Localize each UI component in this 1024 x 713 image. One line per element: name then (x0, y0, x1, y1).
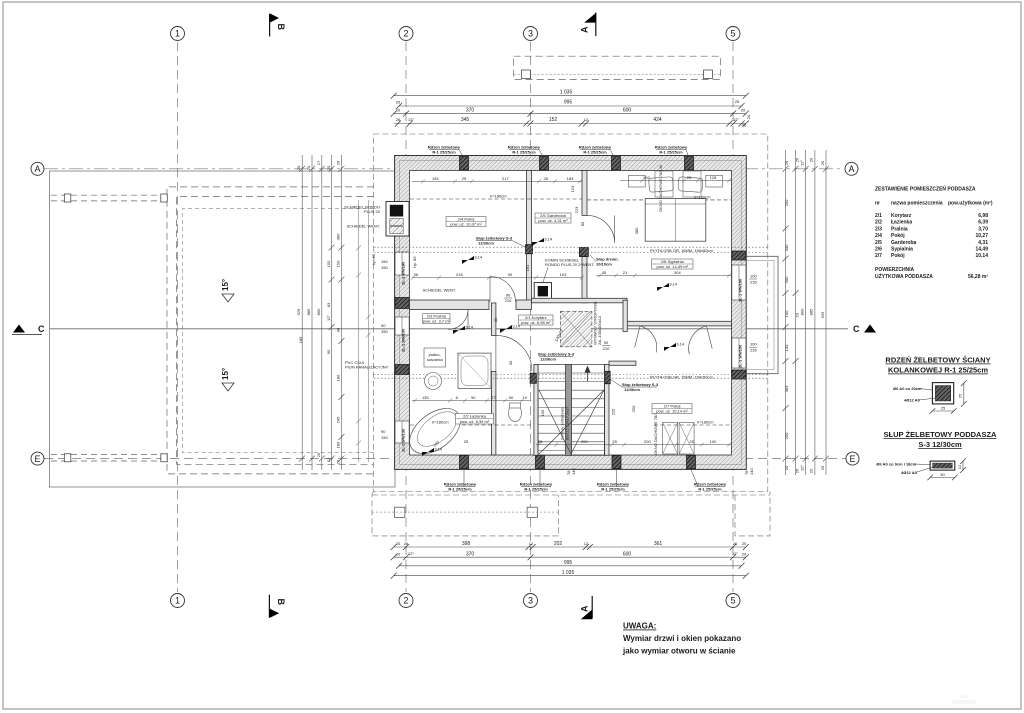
svg-text:25: 25 (543, 176, 548, 181)
svg-text:2L-1 9/N/130: 2L-1 9/N/130 (401, 428, 406, 452)
toilet (509, 405, 522, 422)
svg-text:suszarka: suszarka (427, 357, 444, 362)
svg-text:pow. uż. 6,39 m²: pow. uż. 6,39 m² (460, 419, 490, 424)
stairs up arrow (585, 366, 591, 373)
svg-text:A: A (34, 164, 40, 174)
room label 2/3 (423, 314, 450, 324)
svg-text:380: 380 (335, 233, 340, 240)
svg-text:12/36cm: 12/36cm (624, 387, 640, 392)
svg-text:jako wymiar otworu w ścianie: jako wymiar otworu w ścianie (622, 647, 736, 656)
svg-text:PŁYTA OSB GR. 15MM. 150x50cm: PŁYTA OSB GR. 15MM. 150x50cm (650, 248, 714, 253)
svg-text:300: 300 (784, 276, 789, 283)
svg-text:2: 2 (403, 596, 408, 606)
svg-text:26: 26 (733, 541, 738, 546)
ridge post left (522, 70, 531, 79)
interior dim row mid (412, 277, 582, 279)
svg-text:3: 3 (528, 29, 533, 39)
grid axis 5 (732, 42, 734, 592)
svg-text:90: 90 (604, 340, 609, 345)
svg-text:Ø6 A0 co 9cm i 18cm: Ø6 A0 co 9cm i 18cm (876, 461, 916, 466)
svg-text:12: 12 (584, 117, 589, 122)
svg-text:223: 223 (574, 206, 579, 213)
roof fold dotted line upper (374, 246, 768, 248)
svg-text:20: 20 (396, 100, 401, 105)
svg-text:nazwa pomieszczenia: nazwa pomieszczenia (891, 201, 943, 207)
svg-text:8x20,1 18x17,5x27: 8x20,1 18x17,5x27 (565, 405, 570, 440)
svg-text:145: 145 (432, 176, 439, 181)
svg-text:2/5: 2/5 (875, 240, 882, 246)
svg-text:OKNO DACHOWE 78/140: OKNO DACHOWE 78/140 (658, 164, 663, 212)
svg-text:14,49: 14,49 (975, 247, 988, 253)
top dim ticks (391, 93, 397, 99)
grid axis 2 (405, 42, 407, 592)
roof fold dotted line lower (374, 374, 768, 376)
svg-text:216: 216 (456, 272, 463, 277)
svg-text:103: 103 (560, 272, 567, 277)
svg-text:PION KANALIZACYJNY: PION KANALIZACYJNY (345, 365, 389, 370)
wall bath right (491, 303, 496, 335)
interior dim row 2/7 (596, 274, 731, 276)
column left wall (395, 298, 409, 309)
svg-text:h=180cm: h=180cm (432, 420, 449, 425)
nightstand left (628, 175, 645, 187)
svg-text:20: 20 (784, 160, 789, 165)
svg-text:2/4: 2/4 (875, 233, 882, 239)
room label 2/1 (519, 315, 553, 325)
svg-text:12°: 12° (408, 117, 414, 122)
roof eaves outline left (49, 171, 395, 487)
column wood post (579, 248, 588, 257)
svg-text:1: 1 (175, 596, 180, 606)
svg-text:25: 25 (538, 439, 543, 444)
svg-text:R-1 25/25cm: R-1 25/25cm (448, 487, 472, 492)
svg-text:25: 25 (958, 393, 963, 398)
wall stairs top jog (609, 361, 636, 365)
svg-text:90: 90 (381, 429, 386, 434)
svg-text:12: 12 (957, 464, 962, 469)
svg-text:+3,14: +3,14 (674, 342, 685, 347)
bottom dim line 995 (399, 565, 742, 567)
svg-text:1 035: 1 035 (562, 570, 575, 576)
svg-text:Wymiar drzwi i okien pokazano: Wymiar drzwi i okien pokazano (623, 634, 741, 643)
room label 2/7 (652, 404, 692, 414)
svg-text:100: 100 (710, 439, 717, 444)
svg-text:26: 26 (404, 541, 409, 546)
svg-text:90: 90 (508, 272, 513, 277)
svg-text:10,14: 10,14 (975, 253, 988, 259)
pergola post bottom left (64, 454, 71, 462)
lower overhang dashed right (735, 492, 770, 536)
ridge post right (704, 70, 713, 79)
svg-text:25: 25 (462, 176, 467, 181)
kneewall dashed h180 bottom left (410, 424, 531, 426)
svg-text:83: 83 (326, 302, 331, 307)
svg-text:R-1 25/25cm: R-1 25/25cm (698, 487, 722, 492)
section flag B bottom (268, 595, 270, 618)
svg-text:12/36cm: 12/36cm (540, 357, 556, 362)
svg-text:4Ø12 A0: 4Ø12 A0 (901, 470, 918, 475)
svg-text:30: 30 (940, 472, 945, 477)
svg-text:12°: 12° (326, 315, 331, 321)
svg-text:128: 128 (710, 175, 717, 180)
svg-text:20: 20 (396, 541, 401, 546)
svg-text:Pokój: Pokój (891, 253, 905, 259)
column stairs left (530, 373, 536, 383)
svg-text:12°: 12° (800, 160, 805, 166)
svg-text:h=180cm: h=180cm (694, 194, 711, 199)
door arc bathroom (496, 335, 532, 371)
wall corridor top right (532, 298, 628, 303)
svg-text:6,39: 6,39 (978, 220, 988, 226)
bed (645, 199, 706, 242)
svg-text:398: 398 (462, 541, 471, 547)
roof window over bed (655, 171, 673, 197)
svg-text:C: C (38, 324, 45, 334)
svg-text:pow. uż. 10,37 m²: pow. uż. 10,37 m² (450, 222, 482, 227)
pergola beam bottom (51, 454, 167, 456)
pergola post bottom right (161, 454, 168, 462)
svg-text:25: 25 (735, 99, 740, 104)
svg-text:3,70: 3,70 (978, 226, 988, 232)
svg-text:Łazienka: Łazienka (891, 220, 912, 226)
dimension chain left cluster lines (301, 155, 303, 470)
svg-text:2L-1 9/N/130: 2L-1 9/N/130 (401, 328, 406, 352)
svg-text:20: 20 (742, 551, 747, 556)
wall garderoba right upper (582, 171, 587, 216)
svg-text:90: 90 (381, 323, 386, 328)
svg-text:304: 304 (674, 270, 681, 275)
svg-text:183: 183 (567, 176, 574, 181)
svg-text:pow. uż. 4,31 m²: pow. uż. 4,31 m² (538, 218, 568, 223)
svg-text:B: B (276, 599, 286, 606)
svg-text:2/2: 2/2 (875, 220, 882, 226)
right chain ticks (783, 166, 789, 172)
interior dim row top (412, 180, 582, 182)
svg-text:2L-1 9/N/150: 2L-1 9/N/150 (738, 344, 743, 368)
svg-text:RONDO PLUS 20 2*WENT.: RONDO PLUS 20 2*WENT. (545, 262, 594, 267)
svg-text:26: 26 (335, 160, 340, 165)
interior dim ticks (421, 179, 425, 183)
svg-text:150: 150 (381, 265, 388, 270)
svg-text:370: 370 (466, 107, 475, 113)
garage roof dashed outline third (182, 209, 374, 453)
svg-text:860: 860 (800, 308, 805, 315)
svg-text:Korytarz: Korytarz (891, 213, 912, 219)
svg-text:A: A (579, 26, 589, 33)
lower overhang dashed left (372, 492, 559, 536)
ridge beam dashed rect top (514, 56, 721, 79)
door arc garderoba (587, 215, 615, 243)
wall corridor top left (410, 300, 490, 310)
svg-text:PLUS 20: PLUS 20 (364, 209, 381, 214)
svg-text:30: 30 (508, 360, 513, 365)
svg-text:200: 200 (644, 439, 651, 444)
svg-text:2/7: 2/7 (875, 253, 882, 259)
shower (458, 353, 491, 388)
grid bubble A left (31, 162, 44, 175)
svg-text:380: 380 (634, 227, 639, 234)
svg-text:RDZEŃ ŻELBETOWY ŚCIANY: RDZEŃ ŻELBETOWY ŚCIANY (885, 356, 990, 365)
washer (424, 348, 446, 367)
chimney block left wall (386, 202, 409, 237)
svg-text:56,28 m²: 56,28 m² (968, 274, 988, 280)
svg-text:UŻYTKOWA PODDASZA: UŻYTKOWA PODDASZA (875, 273, 933, 280)
svg-text:POWIERZCHNIA: POWIERZCHNIA (875, 267, 915, 273)
svg-text:nr: nr (875, 201, 880, 207)
grid bubble 1 bottom (171, 594, 185, 608)
svg-text:27: 27 (491, 395, 496, 400)
svg-text:20: 20 (820, 160, 825, 165)
grid axis 3 (530, 42, 532, 592)
eaves post bottom right (527, 507, 537, 517)
left chain tick marks (299, 166, 305, 172)
interior dim row corridor (412, 400, 531, 402)
grid bubble 3 bottom (524, 594, 538, 608)
svg-text:20: 20 (296, 165, 301, 170)
column stairs right (605, 371, 611, 384)
svg-text:UWAGA:: UWAGA: (623, 622, 656, 631)
outer wall band (395, 156, 747, 470)
dormer terrace right (746, 256, 778, 373)
svg-text:15°: 15° (221, 368, 230, 380)
svg-text:pow.użytkowa (m²): pow.użytkowa (m²) (948, 201, 993, 207)
column S-3 garderoba wall (526, 245, 533, 254)
svg-text:210: 210 (603, 346, 610, 351)
svg-text:Garderoba: Garderoba (891, 240, 917, 246)
grid bubble 5 bottom (726, 594, 740, 608)
room label 2/4 (446, 217, 486, 227)
washbasin (425, 373, 442, 390)
svg-text:885: 885 (809, 308, 814, 315)
column bottom wall 1 (460, 455, 469, 469)
section mark C left (13, 325, 25, 333)
wall stairs left (534, 364, 538, 455)
svg-text:A: A (848, 164, 854, 174)
svg-text:pow. uż. 3,7 m²: pow. uż. 3,7 m² (423, 319, 451, 324)
column bottom wall 2 (536, 455, 545, 469)
bottom dim line detail (394, 546, 746, 548)
svg-text:2L-1 9/N/180: 2L-1 9/N/180 (401, 261, 406, 285)
wall garderoba right lower (582, 257, 587, 303)
door arc room 2/7 (635, 326, 662, 353)
svg-text:860: 860 (316, 308, 321, 315)
svg-text:4,31: 4,31 (978, 240, 988, 246)
svg-text:245: 245 (335, 416, 340, 423)
grid axis 1 (177, 42, 179, 592)
grid bubble E left (31, 452, 44, 465)
svg-text:PŁYTA OSB GR. 15MM. 150x50cm: PŁYTA OSB GR. 15MM. 150x50cm (650, 375, 714, 380)
svg-text:Ø6 A0 co 20cm: Ø6 A0 co 20cm (893, 386, 922, 391)
svg-text:pow. uż. 14,49 m²: pow. uż. 14,49 m² (657, 264, 689, 269)
svg-text:pow. uż. 10,14 m²: pow. uż. 10,14 m² (656, 409, 688, 414)
detail S-3 dims (962, 461, 964, 470)
svg-text:370: 370 (466, 551, 475, 557)
pergola beam top (51, 194, 167, 196)
svg-text:25: 25 (689, 439, 694, 444)
svg-text:2/6: 2/6 (875, 247, 882, 253)
column bottom wall 3 (612, 455, 621, 469)
top dim line 1035 (394, 95, 746, 97)
svg-text:36: 36 (413, 272, 418, 277)
svg-text:1 035: 1 035 (560, 90, 573, 96)
pergola post top right (161, 194, 168, 202)
window left wall 1 (395, 252, 409, 275)
svg-text:80: 80 (580, 221, 585, 226)
grid bubble 1 top (171, 27, 185, 41)
stairs diagonal (539, 390, 604, 454)
svg-text:150: 150 (381, 259, 388, 264)
svg-text:235: 235 (750, 280, 757, 285)
detail S-3 cross-section (930, 461, 955, 470)
svg-text:90: 90 (471, 395, 476, 400)
column top wall 2 (540, 157, 549, 171)
svg-text:150: 150 (381, 435, 388, 440)
column top wall 1 (460, 157, 469, 171)
svg-text:440: 440 (784, 244, 789, 251)
svg-text:361: 361 (654, 541, 663, 547)
svg-text:20: 20 (820, 465, 825, 470)
svg-text:5: 5 (730, 596, 735, 606)
garage roof dashed outline outer (167, 187, 374, 474)
svg-text:2L-1 9/N/150: 2L-1 9/N/150 (738, 278, 743, 302)
svg-text:R-1 25/25cm: R-1 25/25cm (524, 487, 548, 492)
svg-text:215: 215 (611, 408, 616, 415)
svg-text:E: E (34, 454, 40, 464)
column right wall 2 (732, 370, 746, 379)
svg-text:155: 155 (540, 409, 545, 416)
svg-text:3: 3 (528, 596, 533, 606)
svg-text:10: 10 (523, 395, 528, 400)
eaves post bottom left (395, 507, 405, 517)
grid bubble 5 top (726, 27, 740, 41)
svg-text:345: 345 (461, 117, 470, 123)
top dim line 995 (399, 105, 742, 107)
svg-text:20: 20 (316, 452, 321, 457)
svg-text:26: 26 (335, 459, 340, 464)
room label 2/6 (652, 259, 693, 269)
svg-text:25: 25 (687, 175, 692, 180)
svg-text:217: 217 (502, 176, 509, 181)
svg-text:150: 150 (326, 260, 331, 267)
svg-text:186: 186 (335, 441, 340, 448)
svg-text:90: 90 (509, 395, 514, 400)
svg-text:135: 135 (422, 395, 429, 400)
window right wall 2 (732, 338, 746, 368)
svg-text:90: 90 (506, 293, 511, 298)
svg-text:186: 186 (335, 374, 340, 381)
svg-text:100: 100 (750, 274, 757, 279)
level marks +3,14 (462, 255, 483, 265)
svg-text:h=180cm: h=180cm (490, 194, 507, 199)
stairs (538, 364, 604, 455)
faint stamp bottom right (952, 700, 976, 704)
svg-text:10,27: 10,27 (975, 233, 988, 239)
wall stairs right (605, 364, 610, 455)
svg-text:100: 100 (750, 342, 757, 347)
wall corridor L (623, 300, 627, 331)
svg-text:152: 152 (549, 117, 558, 123)
floor opening crosshatch (560, 311, 592, 346)
svg-text:2/3: 2/3 (875, 226, 882, 232)
interior dim row bottom (536, 444, 731, 446)
bottom dim ticks (391, 544, 397, 550)
svg-text:1: 1 (175, 29, 180, 39)
bottom dim line 1035 (394, 575, 746, 577)
svg-text:12/36cm: 12/36cm (478, 241, 494, 246)
svg-text:OKNO DACHOWE 78/140: OKNO DACHOWE 78/140 (653, 407, 658, 455)
svg-text:+3,14: +3,14 (510, 324, 521, 329)
svg-text:26: 26 (396, 117, 401, 122)
detail R-1 dims (963, 383, 965, 404)
svg-text:Sypialnia: Sypialnia (891, 247, 913, 253)
svg-text:250: 250 (784, 432, 789, 439)
svg-text:+3,14: +3,14 (667, 282, 678, 287)
section flag A bottom (591, 596, 593, 619)
svg-text:4Ø12 A0: 4Ø12 A0 (904, 398, 921, 403)
section line C (50, 328, 848, 330)
svg-text:600: 600 (623, 107, 632, 113)
grid bubble E right (846, 452, 859, 465)
grid bubble A right (845, 162, 858, 175)
door arc sypialnia (684, 326, 712, 354)
svg-text:+3,14: +3,14 (463, 325, 474, 330)
column bottom wall 4 (687, 455, 696, 469)
garage roof dashed outline inner (177, 197, 374, 465)
svg-text:100: 100 (784, 344, 789, 351)
svg-text:R-1 25/25cm: R-1 25/25cm (601, 487, 625, 492)
svg-text:R-1 25/25cm: R-1 25/25cm (432, 150, 456, 155)
wall garderoba left (527, 171, 532, 303)
mini chain near wall (358, 200, 360, 462)
top dim line detail (394, 123, 746, 125)
window right wall 1 (732, 265, 746, 300)
svg-text:250: 250 (784, 199, 789, 206)
stairs stringer (565, 364, 571, 455)
svg-text:+3,14: +3,14 (542, 237, 553, 242)
door arc pralnia (448, 310, 468, 330)
svg-text:140: 140 (571, 468, 576, 475)
svg-text:90: 90 (335, 327, 340, 332)
svg-text:6,98: 6,98 (978, 213, 988, 219)
svg-text:600: 600 (623, 551, 632, 557)
pillows (649, 177, 674, 193)
detail R-1 cross-section (932, 383, 953, 404)
axis E line (44, 458, 846, 460)
chimney center (534, 283, 551, 300)
svg-text:R-1 25/25cm: R-1 25/25cm (512, 150, 536, 155)
grid bubble 2 bottom (399, 594, 413, 608)
window left wall 3 (395, 421, 409, 443)
svg-text:162: 162 (525, 264, 530, 271)
svg-text:200: 200 (581, 439, 588, 444)
window left wall 2 (395, 317, 409, 335)
svg-text:+3,14: +3,14 (472, 255, 483, 260)
outer wall inner leaf line (400, 161, 742, 465)
svg-text:885: 885 (306, 308, 311, 315)
roof windows room 2/7 (663, 423, 678, 455)
svg-text:45: 45 (602, 270, 607, 275)
svg-text:186: 186 (298, 336, 303, 343)
rooms table rows (875, 213, 988, 259)
roof overhang dashed outline around plan (373, 134, 767, 492)
svg-text:20: 20 (741, 108, 746, 113)
svg-text:25: 25 (941, 406, 946, 411)
svg-text:20: 20 (742, 541, 747, 546)
svg-text:hp. 85: hp. 85 (412, 256, 417, 268)
svg-text:20: 20 (746, 114, 751, 119)
room label 2/5 (535, 213, 571, 223)
svg-text:250: 250 (631, 405, 636, 412)
